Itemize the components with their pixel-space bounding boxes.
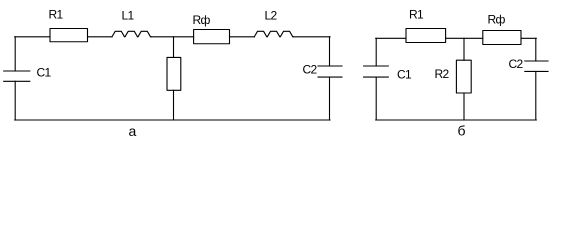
wire: L1 to Rf box (through junction) — [151, 36, 194, 38]
wire: circuit a right vertical upper (to C2) — [329, 37, 331, 66]
svg-text:C2: C2 — [303, 63, 318, 77]
label Rf (circuit b) — [488, 13, 506, 27]
wire: R2 to bottom (circuit b) — [463, 93, 465, 120]
label R1 (circuit b) — [409, 8, 424, 22]
svg-text:а: а — [129, 123, 137, 139]
wire: circuit b right vertical lower — [535, 71, 537, 120]
svg-text:R1: R1 — [49, 8, 64, 22]
wire: R1 to L1 — [88, 36, 113, 38]
wire: Rf to L2 — [230, 36, 255, 38]
resistor R2 (circuit b) — [456, 60, 471, 93]
resistor Rf (circuit a) — [194, 30, 230, 44]
label Rf (circuit a) — [193, 13, 211, 27]
wire: circuit b left vertical upper (to C1) — [375, 38, 377, 66]
inductor L2 — [254, 31, 293, 37]
capacitor C1 (circuit b) — [364, 65, 389, 67]
inductor L1 — [112, 31, 151, 37]
svg-text:Rф: Rф — [488, 13, 506, 27]
svg-text:C1: C1 — [37, 66, 52, 80]
label C2 (circuit a) — [303, 63, 318, 77]
wire: shunt resistor to bottom — [173, 90, 175, 120]
svg-text:C1: C1 — [397, 68, 412, 82]
label R2 (circuit b) — [435, 67, 450, 81]
svg-text:R2: R2 — [435, 67, 450, 81]
wire: circuit b bottom horizontal — [376, 119, 537, 121]
wire: circuit a top-left horizontal — [15, 36, 50, 38]
wire: circuit b top-left horizontal — [376, 37, 406, 39]
label C1 (circuit a) — [37, 66, 52, 80]
label R1 (circuit a) — [49, 8, 64, 22]
label a (circuit a caption) — [129, 123, 137, 139]
wire: R1 to Rf (through junction, circuit b) — [446, 37, 483, 39]
label L2 — [265, 9, 278, 23]
wire: circuit a left vertical lower — [14, 81, 16, 120]
wire: junction drop to R2 — [463, 38, 465, 60]
wire: junction drop to shunt resistor — [173, 37, 175, 58]
svg-text:R1: R1 — [409, 8, 424, 22]
capacitor C2 (circuit a) — [318, 65, 342, 67]
svg-text:Rф: Rф — [193, 13, 211, 27]
wire: Rf to top-right corner (circuit b) — [521, 37, 536, 39]
label C2 (circuit b) — [509, 57, 524, 71]
wire: circuit b right vertical upper (to C2) — [535, 38, 537, 61]
label C1 (circuit b) — [397, 68, 412, 82]
resistor R1 (circuit a) — [50, 29, 88, 42]
label b (circuit b caption) — [458, 123, 466, 139]
wire: circuit b left vertical lower — [375, 77, 377, 120]
wire: circuit a left vertical upper (to C1) — [14, 37, 16, 71]
svg-text:б: б — [458, 123, 466, 139]
svg-text:L1: L1 — [122, 9, 135, 23]
resistor R1 (circuit b) — [406, 29, 446, 43]
resistor (shunt, circuit a) — [167, 57, 181, 90]
resistor Rf (circuit b) — [483, 31, 521, 45]
svg-text:L2: L2 — [265, 9, 278, 23]
wire: circuit a bottom horizontal — [15, 119, 330, 121]
wire: circuit a right vertical lower — [329, 77, 331, 120]
label L1 — [122, 9, 135, 23]
capacitor C2 (circuit b) — [525, 60, 548, 62]
svg-text:C2: C2 — [509, 57, 524, 71]
wire: L2 to top-right corner — [293, 36, 330, 38]
capacitor C1 (circuit a) — [4, 70, 30, 72]
